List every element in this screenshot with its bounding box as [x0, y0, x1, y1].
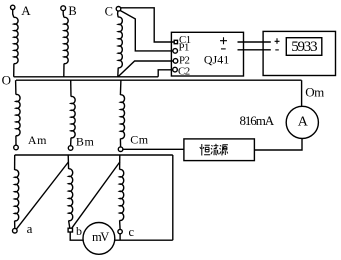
svg-text:P1: P1 [179, 42, 190, 54]
wire Cm to current source [123, 148, 184, 150]
wire bus to ammeter [301, 80, 303, 106]
svg-text:O: O [2, 72, 11, 87]
winding Cm [118, 80, 124, 151]
winding Bm [68, 80, 75, 150]
winding A [11, 5, 19, 77]
winding B [61, 6, 68, 77]
wire QJ41 to 5933 minus [238, 49, 271, 51]
bottom rail right segment [115, 239, 173, 241]
hanzi liu [211, 144, 219, 155]
svg-text:C2: C2 [178, 66, 190, 78]
terminal P1 [173, 49, 178, 54]
winding b [68, 155, 73, 232]
svg-text:c: c [129, 225, 135, 239]
bus lower line [16, 79, 302, 81]
bottom network right edge [172, 155, 174, 240]
hanzi yuan [220, 145, 228, 156]
box 5933 outer [263, 31, 335, 75]
millivoltmeter mV [83, 223, 115, 255]
bottom rail left segment [70, 232, 83, 240]
wire C to C1 [121, 8, 175, 42]
svg-text:a: a [27, 221, 33, 236]
QJ41 plus mark [220, 37, 227, 44]
wire C2 to bus [158, 70, 173, 77]
hanzi heng [200, 144, 210, 156]
svg-text:A: A [298, 114, 309, 129]
wire C to P1 [120, 11, 173, 51]
QJ41 minus mark [221, 48, 226, 50]
svg-text:b: b [76, 224, 82, 238]
bottom network top rail [15, 154, 173, 156]
svg-text:Am: Am [28, 133, 47, 147]
winding c [118, 155, 124, 240]
terminal P2 [173, 59, 178, 64]
wire ammeter to current source [254, 138, 302, 150]
svg-text:QJ41: QJ41 [204, 52, 229, 66]
winding Am [14, 80, 20, 150]
terminal C1 [174, 40, 177, 43]
svg-text:816mA: 816mA [240, 113, 275, 128]
winding a [13, 155, 19, 233]
wire P2 to bus [118, 61, 173, 77]
tap diagonal a [16, 162, 68, 229]
svg-text:Bm: Bm [76, 135, 95, 149]
ammeter A1 [286, 106, 318, 138]
svg-text:5933: 5933 [291, 39, 317, 55]
svg-text:mV: mV [92, 230, 109, 244]
QJ41 box [171, 32, 243, 76]
5933 minus mark [275, 49, 279, 51]
tap diagonal b [72, 162, 120, 228]
5933 inner box [286, 38, 322, 56]
5933 plus mark [275, 38, 280, 44]
constant current source box [184, 139, 255, 161]
constant current source label (drawn hanzi) [200, 144, 228, 156]
svg-text:A: A [21, 3, 31, 18]
svg-text:Cm: Cm [130, 133, 149, 147]
svg-text:B: B [68, 4, 76, 18]
svg-text:Om: Om [305, 84, 324, 99]
bus O upper line [14, 76, 159, 78]
terminal C2 [173, 67, 178, 72]
wire QJ41 to 5933 plus [238, 41, 271, 43]
winding C [116, 7, 122, 77]
svg-text:C: C [105, 5, 113, 19]
